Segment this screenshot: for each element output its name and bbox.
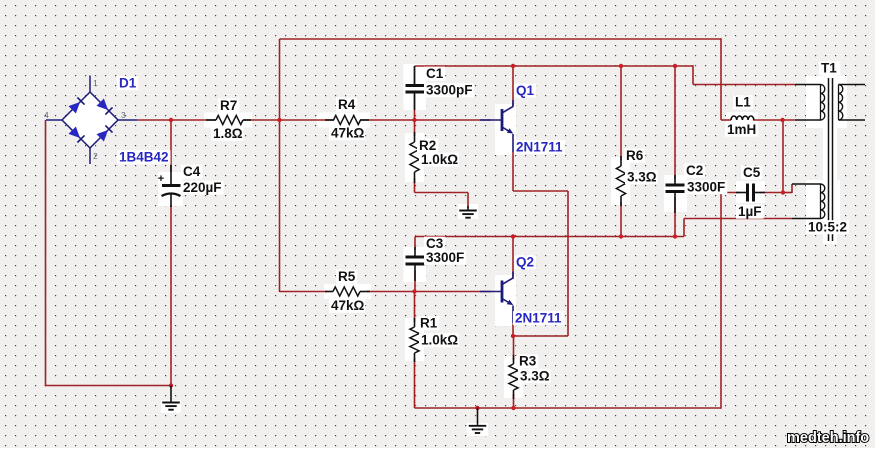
svg-text:R2: R2	[419, 138, 436, 153]
svg-text:1: 1	[93, 78, 98, 88]
svg-text:1mH: 1mH	[727, 122, 756, 137]
svg-text:C1: C1	[426, 66, 444, 81]
svg-text:3300F: 3300F	[426, 250, 464, 265]
svg-text:1.0kΩ: 1.0kΩ	[421, 333, 458, 348]
svg-text:R5: R5	[338, 269, 356, 284]
svg-text:4: 4	[44, 110, 49, 120]
svg-text:R3: R3	[519, 354, 537, 369]
svg-text:Q2: Q2	[516, 255, 534, 270]
svg-text:medteh.info: medteh.info	[787, 430, 869, 446]
svg-text:3.3Ω: 3.3Ω	[627, 170, 657, 185]
svg-text:R6: R6	[626, 148, 644, 163]
svg-text:220µF: 220µF	[183, 180, 222, 195]
svg-text:47kΩ: 47kΩ	[331, 126, 365, 141]
svg-text:47kΩ: 47kΩ	[331, 298, 365, 313]
svg-text:3300pF: 3300pF	[426, 83, 473, 98]
svg-text:L1: L1	[735, 95, 751, 110]
svg-text:1.8Ω: 1.8Ω	[213, 126, 243, 141]
svg-text:+: +	[158, 173, 164, 185]
svg-text:3.3Ω: 3.3Ω	[520, 369, 550, 384]
svg-text:R4: R4	[338, 97, 356, 112]
svg-text:2N1711: 2N1711	[515, 311, 562, 326]
svg-text:3300F: 3300F	[687, 180, 725, 195]
svg-text:C2: C2	[686, 163, 703, 178]
svg-text:C4: C4	[183, 164, 201, 179]
svg-text:T1: T1	[821, 61, 837, 76]
svg-text:Q1: Q1	[516, 83, 535, 98]
svg-text:C5: C5	[743, 165, 761, 180]
svg-text:D1: D1	[119, 76, 137, 91]
svg-text:1B4B42: 1B4B42	[119, 150, 169, 165]
svg-text:R7: R7	[220, 98, 237, 113]
svg-text:2N1711: 2N1711	[516, 140, 563, 155]
svg-text:1µF: 1µF	[738, 204, 762, 219]
svg-text:10:5:2: 10:5:2	[808, 220, 847, 235]
svg-text:2: 2	[93, 151, 98, 161]
svg-text:R1: R1	[420, 316, 438, 331]
svg-text:3: 3	[121, 110, 126, 120]
svg-text:1.0kΩ: 1.0kΩ	[421, 152, 458, 167]
svg-text:C3: C3	[426, 236, 444, 251]
